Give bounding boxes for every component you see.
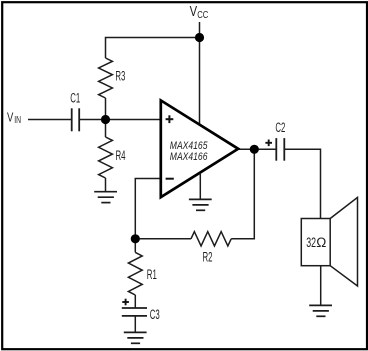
op-amp - input marker bbox=[166, 178, 174, 180]
wire top rail VCC to R3 bbox=[106, 38, 200, 59]
junction node at VCC rail bbox=[195, 33, 204, 42]
svg-text:Ω: Ω bbox=[316, 235, 326, 250]
wire feedback node to R2 bbox=[135, 238, 191, 240]
wire R1 to C3 bbox=[134, 295, 136, 308]
wire R4 to ground bbox=[105, 178, 107, 192]
ground under R4 bbox=[94, 192, 117, 203]
node VIN label bbox=[7, 111, 21, 125]
node VCC label bbox=[190, 2, 209, 20]
speaker cone bbox=[330, 197, 357, 286]
op-amp negative supply stem to ground bbox=[199, 173, 201, 199]
wire VIN to C1 bbox=[28, 119, 72, 121]
wire R3 bottom to input node bbox=[105, 98, 107, 120]
resistor R2 bbox=[191, 232, 231, 246]
polarity plus of C3 bbox=[122, 299, 129, 306]
svg-text:MAX4166: MAX4166 bbox=[170, 151, 208, 163]
label 32 ohm bbox=[306, 235, 326, 251]
svg-text:IN: IN bbox=[14, 114, 21, 126]
wire speaker to ground bbox=[320, 266, 322, 306]
wire C2 to speaker bbox=[284, 149, 320, 218]
svg-text:32: 32 bbox=[306, 235, 316, 251]
junction node at output bbox=[250, 145, 259, 154]
capacitor C2 bbox=[276, 138, 284, 161]
svg-text:V: V bbox=[7, 111, 14, 125]
wire C1 to op-amp + input bbox=[79, 119, 161, 121]
svg-text:R3: R3 bbox=[115, 69, 125, 84]
wire op-amp output bbox=[237, 148, 276, 150]
wire input node to R4 bbox=[105, 120, 107, 138]
wire feedback node to R1 bbox=[134, 239, 136, 253]
ground under op-amp bbox=[189, 199, 212, 210]
resistor R4 bbox=[99, 137, 113, 178]
op-amp + input marker bbox=[166, 115, 174, 123]
speaker 32ohm box bbox=[301, 219, 330, 266]
svg-text:C1: C1 bbox=[70, 91, 80, 106]
svg-text:R2: R2 bbox=[203, 250, 213, 265]
svg-text:R1: R1 bbox=[147, 268, 157, 283]
svg-text:V: V bbox=[190, 2, 198, 19]
svg-text:CC: CC bbox=[197, 9, 208, 20]
svg-text:C3: C3 bbox=[150, 308, 160, 323]
svg-text:C2: C2 bbox=[275, 121, 285, 136]
svg-text:R4: R4 bbox=[116, 149, 126, 164]
junction node at input bbox=[101, 115, 110, 124]
wire op-amp minus input to feedback node bbox=[135, 179, 161, 239]
polarity plus of C2 bbox=[265, 140, 272, 147]
wire C3 to ground bbox=[134, 316, 136, 333]
op-amp U1 MAX4165/MAX4166 bbox=[161, 100, 238, 197]
wire R2 to output node bbox=[231, 149, 254, 239]
wire VCC stem bbox=[199, 22, 201, 126]
capacitor C3 bbox=[122, 308, 147, 316]
ground under C3 bbox=[124, 332, 147, 343]
op-amp part number label bbox=[170, 140, 208, 163]
junction node at feedback bbox=[131, 234, 140, 243]
resistor R3 bbox=[99, 58, 113, 98]
capacitor C1 bbox=[72, 108, 80, 131]
ground under speaker bbox=[309, 305, 332, 316]
resistor R1 bbox=[128, 252, 142, 295]
